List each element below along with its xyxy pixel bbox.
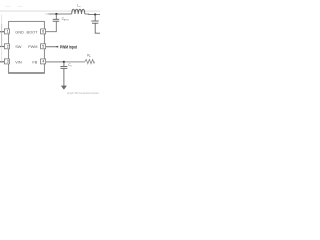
svg-text:GND: GND <box>15 29 24 34</box>
svg-text:FB: FB <box>32 59 37 64</box>
svg-text:PWM: PWM <box>28 44 38 49</box>
node SW junction dot <box>55 13 57 15</box>
svg-text:5: 5 <box>42 45 44 49</box>
capacitor Co <box>60 65 67 67</box>
svg-text:SW: SW <box>15 44 22 49</box>
svg-text:Copyright © 2016, Texas Instru: Copyright © 2016, Texas Instruments Inco… <box>67 92 99 95</box>
wire FB to resistor <box>65 61 85 63</box>
wire FB pin <box>46 61 63 63</box>
pin box 3 <box>4 59 9 64</box>
pin box 2 <box>4 44 9 49</box>
IC U1 body <box>9 21 45 73</box>
wire output cap bottom <box>95 23 100 33</box>
svg-text:6: 6 <box>42 30 44 34</box>
ground arrow <box>61 86 67 90</box>
wire Cboot top <box>55 14 57 19</box>
node FB junction dot <box>63 61 65 63</box>
wire pin2 SW left <box>0 46 4 48</box>
inductor Lo <box>72 9 85 14</box>
wire PWM pin <box>46 46 59 48</box>
wire Co top <box>63 62 65 66</box>
svg-text:2: 2 <box>7 45 9 49</box>
top SW rail wire <box>46 13 50 15</box>
wire Cboot to BOOT pin <box>46 21 57 32</box>
wire inductor to output <box>85 13 100 16</box>
wire pin1 GND left <box>0 31 4 33</box>
svg-text:1: 1 <box>7 30 9 34</box>
svg-text:PWM Input: PWM Input <box>60 45 78 50</box>
pin box 4 FB <box>41 59 46 64</box>
node Vout junction dot <box>94 13 96 15</box>
pin box 5 PWM <box>41 44 46 49</box>
svg-text:BOOT: BOOT <box>64 20 70 22</box>
svg-text:VIN: VIN <box>15 59 22 64</box>
capacitor Cboot <box>53 18 60 20</box>
svg-text:4: 4 <box>42 60 44 64</box>
pin box 6 BOOT <box>41 29 46 34</box>
capacitor output <box>91 20 98 22</box>
PWM input arrow <box>56 46 58 48</box>
wire pin3 VIN left <box>0 61 4 63</box>
wire output cap top <box>94 15 96 21</box>
page separator rule <box>0 10 100 13</box>
IC U1 bottom edge <box>8 72 45 74</box>
faint header remnants <box>5 6 11 7</box>
svg-text:3: 3 <box>7 60 9 64</box>
pin box 1 <box>4 29 9 34</box>
left vertical bus wire <box>1 15 3 25</box>
resistor Ro <box>85 60 95 64</box>
svg-text:BOOT: BOOT <box>26 29 38 34</box>
wire Co bottom <box>63 68 65 86</box>
